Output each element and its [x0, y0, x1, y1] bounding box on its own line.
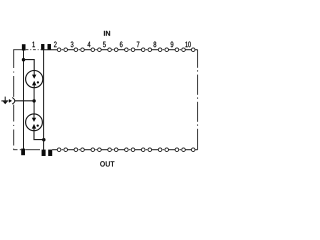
wire segment 6 [118, 49, 125, 51]
surge arrester F1 (gas discharge tube) [26, 71, 43, 88]
terminal 2 label [54, 42, 57, 48]
contact pair 4/5 [91, 48, 95, 52]
wire stub to right boundary [195, 149, 197, 151]
wire branch junction to arrester F1 [24, 60, 35, 71]
label IN [104, 31, 110, 36]
enclosure boundary top-left horizontal dash-dot [13, 49, 41, 51]
wire line1 vertical (terminal 1 to OUT) [23, 50, 25, 149]
wire segment 4 [84, 149, 91, 151]
label OUT [100, 161, 114, 167]
terminal 6 label [120, 42, 123, 48]
node junction on line1 [22, 58, 25, 61]
wire segment 3 [68, 49, 75, 51]
terminal 2 blocks (OUT) [42, 150, 53, 156]
wire segment 9 [169, 49, 176, 51]
terminal 1 block (IN) [22, 44, 26, 50]
terminal 1 label [32, 42, 34, 48]
surge arrester F2 (gas discharge tube) [26, 114, 43, 131]
wire segment 10 [185, 149, 191, 151]
wire segment 8 [152, 49, 159, 51]
terminal 9 label [171, 42, 174, 48]
wire segment 10 [185, 49, 191, 51]
contact pair 3/4 [74, 148, 78, 152]
wire OUT bus [52, 149, 57, 151]
contact pair 7/8 [141, 148, 145, 152]
wire F2 to line2 [34, 131, 44, 140]
contact pair 6/7 [125, 148, 129, 152]
plug contact socket arc [12, 98, 15, 105]
contact pair 3/4 [74, 48, 78, 52]
contact pair 8/9 [158, 148, 162, 152]
wire stub to right boundary [195, 49, 197, 51]
enclosure boundary right vertical dash-dot [197, 50, 199, 150]
terminal 3 label [71, 42, 74, 48]
terminal 2 blocks (IN) [41, 44, 51, 50]
contact pair 9/10 [175, 148, 179, 152]
contact pair 5/6 [108, 148, 112, 152]
contact pair 2/3 [57, 48, 61, 52]
contact single right end [191, 148, 195, 152]
wire segment 8 [152, 149, 159, 151]
terminal 10 label [185, 42, 190, 48]
wire F1 to F2 [33, 88, 35, 114]
contact pair 4/5 [91, 148, 95, 152]
contact pair 7/8 [141, 48, 145, 52]
wire segment 9 [169, 149, 176, 151]
wire segment 3 [68, 149, 75, 151]
contact pair 9/10 [175, 48, 179, 52]
contact pair 6/7 [125, 48, 129, 52]
terminal 5 label [103, 42, 106, 48]
node junction on line2 [42, 138, 45, 141]
earth ground symbol [1, 97, 8, 105]
contact pair 8/9 [158, 48, 162, 52]
wire segment 6 [118, 149, 125, 151]
terminal 7 label [137, 42, 140, 48]
wire line2 vertical (terminal 2 to OUT) [43, 50, 45, 150]
terminal 4 label [88, 42, 91, 48]
top feed-through chain (terminals 3-10) [57, 48, 197, 52]
wire segment 5 [101, 149, 108, 151]
wire segment 7 [135, 149, 142, 151]
bottom feed-through chain (OUT side) [57, 148, 197, 152]
contact pair 2/3 [57, 148, 61, 152]
terminal 8 label [154, 42, 157, 48]
wire terminal 2 bus [41, 49, 57, 51]
node ground junction [32, 99, 35, 102]
wire segment 5 [101, 49, 108, 51]
wire segment 4 [84, 49, 91, 51]
enclosure boundary left vertical dash-dot [13, 50, 15, 150]
contact pair 5/6 [108, 48, 112, 52]
terminal 1 block (OUT) [21, 149, 25, 156]
plug contact arrow (ground lead) [9, 99, 12, 103]
enclosure boundary bottom horizontal dash-dot [13, 149, 40, 151]
wire ground to junction [14, 100, 34, 102]
contact single right end [191, 48, 195, 52]
wire segment 7 [135, 49, 142, 51]
